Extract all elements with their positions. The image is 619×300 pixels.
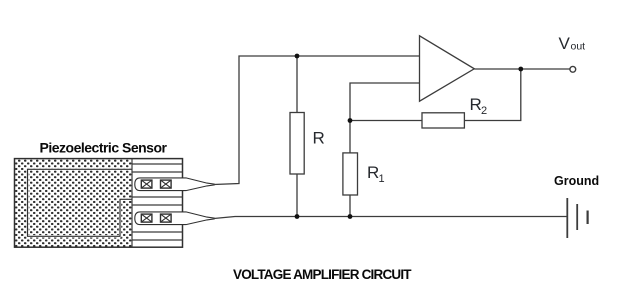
svg-text:Ground: Ground [554, 174, 599, 188]
wire: top lead to non-inverting input [214, 56, 420, 185]
resistor R1 [343, 153, 358, 217]
sensor crimp tab 2 (bottom lead) [135, 212, 214, 225]
svg-text:out: out [571, 41, 586, 53]
svg-text:1: 1 [379, 173, 385, 185]
wire: output [474, 68, 570, 70]
node: + input / R junction [295, 54, 300, 59]
wire: R1 bottom [349, 195, 351, 217]
sensor crimp tab 1 (top lead) [135, 178, 214, 191]
sensor connector boundary line [131, 159, 133, 248]
node: R / ground rail junction [295, 214, 300, 219]
node: feedback junction [348, 118, 353, 123]
svg-text:R: R [470, 95, 482, 114]
sensor outer outline [15, 159, 183, 248]
sensor body stipple film [15, 159, 133, 248]
R1 body [343, 153, 358, 195]
svg-text:V: V [559, 34, 571, 53]
ground symbol [567, 198, 587, 238]
wire: feedback right segment [464, 69, 520, 121]
svg-text:2: 2 [481, 105, 487, 117]
svg-text:Piezoelectric Sensor: Piezoelectric Sensor [40, 139, 168, 155]
resistor R2 [422, 113, 464, 128]
node: R1 / ground rail junction [348, 214, 353, 219]
wire: inverting input [350, 83, 420, 153]
tab2 rivet 1 [141, 214, 152, 222]
wire: R bottom [296, 174, 298, 217]
node: output junction [518, 67, 523, 72]
piezoelectric sensor PZ1 [15, 159, 183, 248]
Vout terminal [570, 66, 576, 72]
sensor inner electrode outline [28, 169, 133, 236]
svg-text:R: R [313, 129, 325, 148]
svg-text:VOLTAGE AMPLIFIER CIRCUIT: VOLTAGE AMPLIFIER CIRCUIT [233, 267, 412, 282]
wire: feedback left segment [350, 120, 422, 122]
wire: R top [296, 56, 298, 113]
resistor R [290, 56, 304, 217]
tab1 rivet 1 [141, 180, 152, 188]
sensor connector layer lines [132, 163, 183, 165]
tab2 rivet 2 [161, 214, 172, 222]
wire: bottom lead / ground rail [214, 217, 567, 219]
tab1 rivet 2 [161, 180, 172, 188]
R body [290, 113, 304, 175]
svg-text:R: R [367, 163, 379, 182]
op-amp U1 [420, 36, 475, 101]
